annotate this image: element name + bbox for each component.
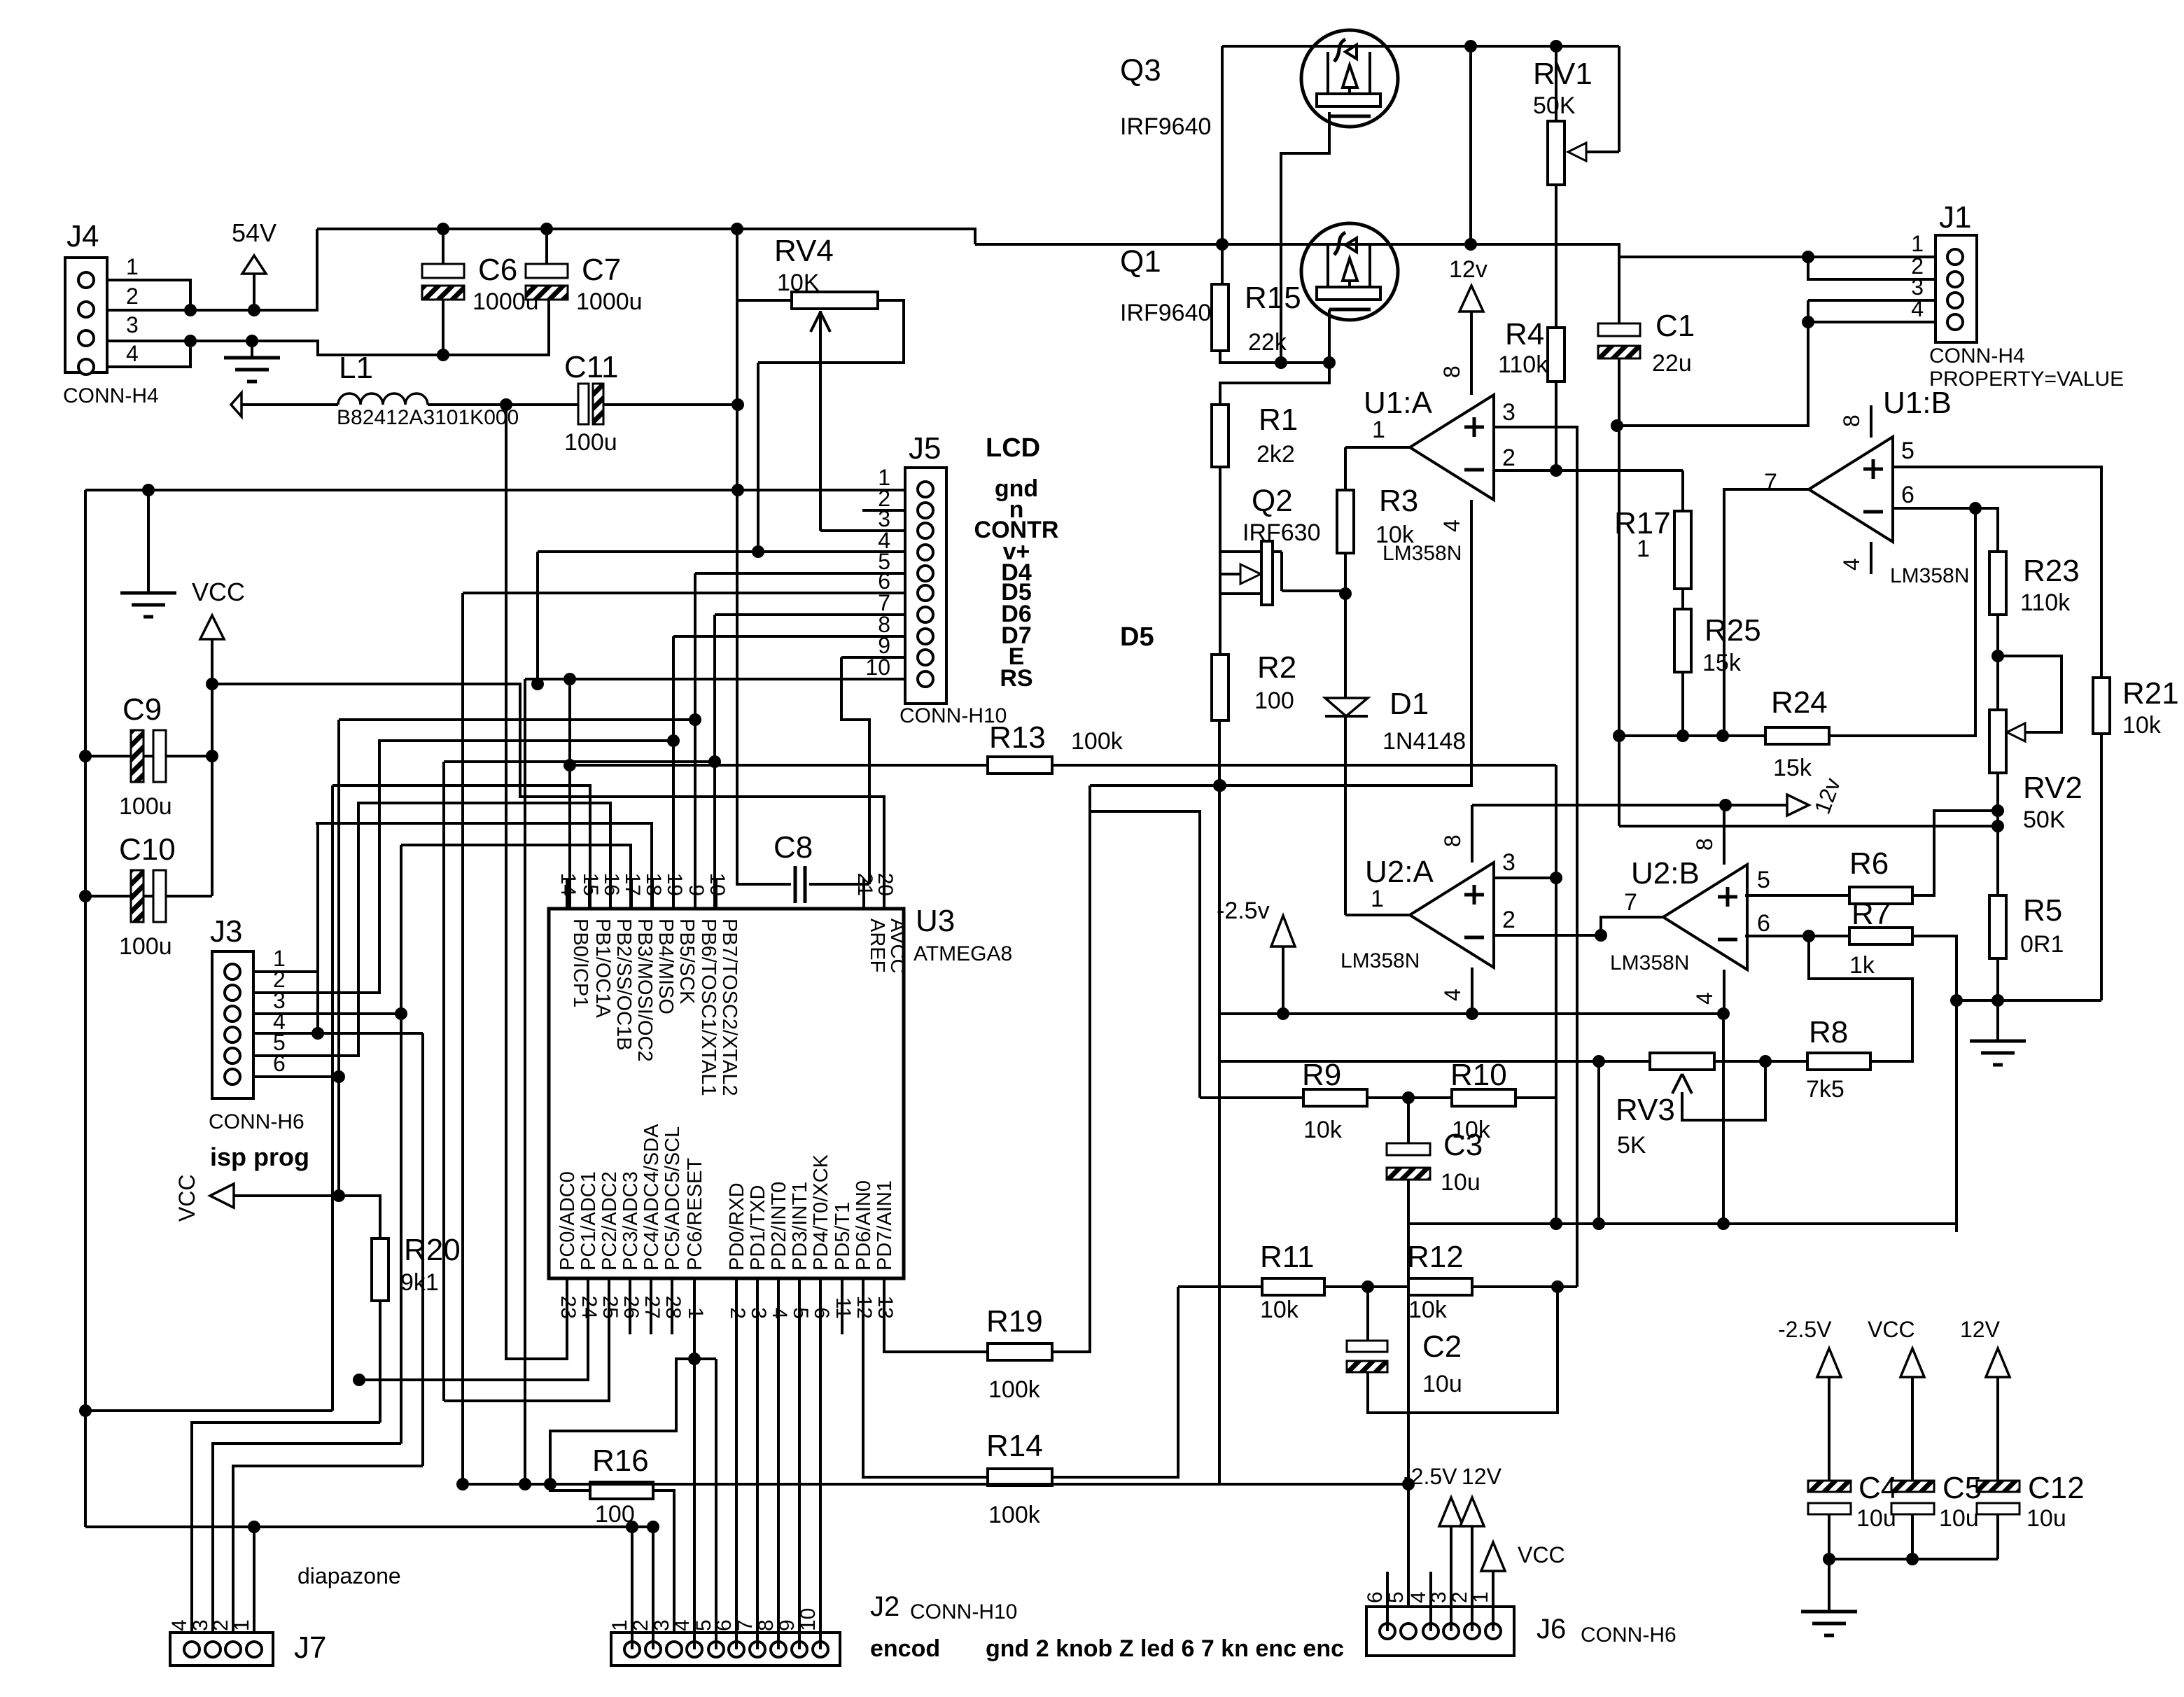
svg-text:3: 3 bbox=[1502, 849, 1515, 876]
resistor R9 10k bbox=[1090, 811, 1200, 1098]
wire 54V top rail bbox=[317, 229, 975, 244]
junction bbox=[1611, 419, 1623, 432]
svg-text:CONN-H6: CONN-H6 bbox=[1581, 1623, 1676, 1647]
svg-text:LCD: LCD bbox=[986, 433, 1040, 463]
svg-text:R14: R14 bbox=[986, 1429, 1043, 1463]
resistor R2 100 bbox=[1212, 655, 1228, 720]
svg-text:100u: 100u bbox=[119, 793, 172, 820]
svg-text:27: 27 bbox=[640, 1296, 664, 1319]
svg-text:PC4/ADC4/SDA: PC4/ADC4/SDA bbox=[640, 1124, 663, 1271]
svg-text:100k: 100k bbox=[1071, 728, 1123, 755]
RV1 wiper bbox=[1618, 46, 1620, 152]
wire PB7 row bbox=[444, 760, 715, 763]
svg-text:10K: 10K bbox=[777, 270, 820, 296]
junction bbox=[79, 1404, 92, 1417]
svg-text:0R1: 0R1 bbox=[2020, 931, 2064, 958]
resistor R21 10k bbox=[2093, 678, 2110, 734]
svg-text:J4: J4 bbox=[66, 219, 99, 253]
junction bbox=[437, 223, 449, 235]
svg-text:LM358N: LM358N bbox=[1382, 542, 1462, 565]
junction bbox=[500, 398, 512, 411]
svg-text:R6: R6 bbox=[1849, 846, 1889, 881]
svg-text:RV2: RV2 bbox=[2023, 771, 2082, 805]
ground bbox=[1828, 1559, 1830, 1612]
svg-text:22k: 22k bbox=[1248, 329, 1287, 356]
svg-text:R20: R20 bbox=[404, 1233, 461, 1267]
svg-text:4: 4 bbox=[1692, 992, 1717, 1005]
svg-text:1: 1 bbox=[1911, 231, 1924, 256]
svg-text:R5: R5 bbox=[2023, 893, 2062, 928]
svg-text:PB3/MOSI/OC2: PB3/MOSI/OC2 bbox=[633, 919, 656, 1062]
pot RV4 10K bbox=[792, 292, 878, 309]
svg-text:C11: C11 bbox=[564, 350, 618, 384]
capacitor C10 bbox=[85, 895, 212, 898]
wire bottom gnd row bbox=[85, 1525, 653, 1528]
resistor R4 110k bbox=[1548, 328, 1564, 382]
svg-text:-2.5v: -2.5v bbox=[1217, 898, 1270, 924]
svg-text:D1: D1 bbox=[1389, 687, 1429, 721]
wire J5 D4 bbox=[695, 572, 905, 575]
junction bbox=[79, 750, 92, 762]
svg-text:20: 20 bbox=[874, 873, 897, 896]
svg-text:54V: 54V bbox=[232, 218, 276, 247]
svg-text:7: 7 bbox=[1764, 469, 1777, 496]
svg-text:PROPERTY=VALUE: PROPERTY=VALUE bbox=[1929, 368, 2124, 391]
svg-text:CONN-H6: CONN-H6 bbox=[209, 1110, 304, 1133]
svg-text:7: 7 bbox=[1624, 889, 1637, 916]
wire gnd bus Wb bbox=[1090, 500, 1471, 785]
resistor R3 10k bbox=[1337, 490, 1354, 553]
svg-text:U1:A: U1:A bbox=[1364, 386, 1432, 420]
svg-text:CONN-H4: CONN-H4 bbox=[1929, 344, 2025, 368]
svg-text:1: 1 bbox=[1637, 536, 1650, 562]
wire J7 pin2 row bbox=[233, 1466, 423, 1642]
svg-text:R11: R11 bbox=[1260, 1240, 1314, 1274]
wire J5 D7 bbox=[673, 635, 905, 638]
svg-text:4: 4 bbox=[126, 341, 139, 366]
svg-text:10u: 10u bbox=[1939, 1505, 1979, 1532]
U3 bottom pins bbox=[566, 1278, 568, 1334]
svg-text:R2: R2 bbox=[1257, 650, 1296, 685]
svg-text:U1:B: U1:B bbox=[1883, 386, 1952, 420]
wire C3 bottom row bbox=[1408, 1222, 1956, 1225]
wire PC1 row bbox=[359, 1334, 588, 1380]
svg-text:100k: 100k bbox=[988, 1502, 1041, 1528]
svg-text:PC0/ADC0: PC0/ADC0 bbox=[556, 1171, 579, 1271]
svg-text:gnd 2 knob Z led 6 7 kn enc en: gnd 2 knob Z led 6 7 kn enc enc bbox=[986, 1635, 1344, 1662]
junction bbox=[731, 398, 744, 411]
svg-text:1: 1 bbox=[1372, 417, 1385, 443]
junction bbox=[1277, 1007, 1289, 1020]
wire J2 pin6-10 bbox=[735, 1334, 738, 1649]
wire U2A3 R10 bus bbox=[1555, 765, 1557, 1224]
svg-text:19: 19 bbox=[663, 873, 686, 896]
svg-text:Q3: Q3 bbox=[1120, 53, 1161, 88]
svg-text:28: 28 bbox=[661, 1296, 685, 1319]
svg-text:R24: R24 bbox=[1771, 685, 1828, 720]
svg-text:PD7/AIN1: PD7/AIN1 bbox=[874, 1180, 896, 1271]
svg-text:CONN-H4: CONN-H4 bbox=[63, 384, 159, 407]
connector J6 bbox=[1366, 1607, 1514, 1656]
svg-text:10k: 10k bbox=[1303, 1117, 1343, 1143]
svg-text:11: 11 bbox=[832, 1297, 855, 1319]
wire knob row bbox=[463, 1483, 1408, 1486]
inductor L1 bbox=[231, 393, 241, 417]
svg-text:PD5/T1: PD5/T1 bbox=[832, 1202, 854, 1271]
resistor R11 10k bbox=[1178, 1285, 1262, 1288]
junction bbox=[353, 1374, 365, 1386]
capacitor C5 10u bbox=[1891, 1481, 1934, 1492]
svg-text:1k: 1k bbox=[1849, 952, 1875, 979]
wire J4 pin2 rail bbox=[107, 229, 317, 310]
svg-text:2: 2 bbox=[126, 284, 139, 309]
svg-text:12: 12 bbox=[853, 1296, 876, 1319]
junction bbox=[1402, 1091, 1415, 1104]
svg-text:1: 1 bbox=[1371, 886, 1384, 912]
wire PB2 row bbox=[358, 802, 610, 804]
svg-text:12v: 12v bbox=[1449, 256, 1487, 283]
pot RV3 5K bbox=[1219, 1060, 1650, 1063]
junction bbox=[1802, 251, 1814, 263]
svg-text:C12: C12 bbox=[2028, 1471, 2085, 1505]
svg-text:isp prog: isp prog bbox=[210, 1143, 309, 1171]
diode D1 1N4148 bbox=[1325, 698, 1368, 716]
junction bbox=[184, 304, 197, 316]
wire output rail bbox=[975, 244, 1619, 258]
op-amp U2:B bbox=[1663, 865, 1747, 970]
svg-text:C7: C7 bbox=[582, 253, 621, 287]
wire J1 34 to C1 bbox=[1617, 300, 1808, 426]
svg-text:PB2/SS/OC1B: PB2/SS/OC1B bbox=[612, 919, 635, 1051]
svg-text:Q1: Q1 bbox=[1120, 244, 1161, 279]
wire RV4 right bbox=[758, 300, 904, 363]
svg-text:-2.5V: -2.5V bbox=[1403, 1464, 1457, 1489]
resistor R25 15k bbox=[1681, 589, 1684, 609]
svg-text:6: 6 bbox=[1901, 482, 1914, 508]
svg-text:1: 1 bbox=[608, 1619, 631, 1631]
resistor R5 0R1 bbox=[1989, 895, 2006, 958]
wire J3 pin1 bbox=[253, 970, 318, 973]
junction bbox=[563, 759, 576, 771]
junction bbox=[689, 713, 701, 726]
junction bbox=[1802, 930, 1815, 942]
svg-text:-2.5V: -2.5V bbox=[1778, 1317, 1832, 1342]
svg-text:R23: R23 bbox=[2023, 554, 2080, 588]
svg-text:PD2/INT0: PD2/INT0 bbox=[768, 1182, 790, 1271]
svg-text:C6: C6 bbox=[478, 253, 517, 287]
junction bbox=[332, 1189, 345, 1202]
junction bbox=[1823, 1553, 1835, 1565]
wire J5 n stub bbox=[862, 509, 905, 512]
resistor R24 15k bbox=[1619, 734, 1765, 737]
svg-text:4: 4 bbox=[768, 1307, 791, 1319]
svg-text:C10: C10 bbox=[119, 832, 176, 867]
svg-text:PC6/RESET: PC6/RESET bbox=[684, 1158, 706, 1271]
svg-text:J2: J2 bbox=[870, 1591, 899, 1622]
transistor Q1 IRF9640 bbox=[1301, 223, 1398, 320]
wire PB6 row bbox=[339, 718, 695, 721]
wire U1B7 branch bbox=[1723, 734, 1725, 737]
wire J1 pin4 bbox=[1808, 321, 1935, 323]
junction bbox=[206, 678, 218, 690]
wire J5 E bbox=[841, 656, 905, 659]
capacitor C6 bbox=[442, 229, 444, 264]
resistor R10 10k bbox=[1367, 1096, 1452, 1099]
U1A pin8 bbox=[1470, 312, 1473, 395]
wire J1 pin3 bbox=[1808, 299, 1935, 302]
svg-text:10k: 10k bbox=[1260, 1297, 1299, 1323]
svg-text:C3: C3 bbox=[1443, 1128, 1483, 1162]
svg-text:RV1: RV1 bbox=[1533, 57, 1592, 91]
wire Q3 source bbox=[1221, 46, 1224, 284]
svg-text:7k5: 7k5 bbox=[1806, 1076, 1844, 1103]
ground bbox=[251, 341, 253, 358]
svg-text:5K: 5K bbox=[1617, 1132, 1646, 1159]
svg-text:1: 1 bbox=[126, 254, 139, 279]
junction bbox=[1719, 799, 1732, 811]
wire J3 pin5 bbox=[253, 803, 610, 1056]
svg-text:10k: 10k bbox=[1408, 1297, 1448, 1323]
junction bbox=[544, 1478, 556, 1490]
svg-text:C2: C2 bbox=[1422, 1329, 1462, 1364]
svg-text:R21: R21 bbox=[2122, 676, 2179, 711]
svg-text:10u: 10u bbox=[2026, 1505, 2066, 1532]
svg-text:J5: J5 bbox=[909, 431, 941, 466]
wire PC2 row bbox=[444, 1334, 609, 1401]
resistor R19 100k bbox=[884, 1334, 988, 1352]
wire R23 RV2 bbox=[1996, 615, 1999, 710]
junction bbox=[248, 1521, 260, 1533]
wire PB7 vert bbox=[442, 762, 445, 1401]
svg-text:L1: L1 bbox=[339, 351, 373, 385]
svg-text:10: 10 bbox=[706, 873, 729, 896]
svg-text:22u: 22u bbox=[1652, 350, 1692, 377]
wire minus to J6row bbox=[1722, 1014, 1725, 1224]
capacitor C4 10u bbox=[1808, 1481, 1851, 1492]
svg-text:IRF9640: IRF9640 bbox=[1120, 113, 1211, 140]
junction bbox=[1969, 502, 1982, 515]
svg-text:PD4/T0/XCK: PD4/T0/XCK bbox=[810, 1154, 832, 1271]
svg-text:1: 1 bbox=[230, 1619, 253, 1631]
svg-text:6: 6 bbox=[1757, 910, 1770, 937]
junction bbox=[1550, 464, 1562, 477]
junction bbox=[311, 1027, 324, 1040]
svg-text:R7: R7 bbox=[1851, 897, 1891, 931]
wire VCC rail bbox=[212, 684, 884, 909]
capacitor C9 bbox=[85, 755, 212, 757]
svg-text:15k: 15k bbox=[1773, 755, 1812, 781]
wire R15 zigzag bbox=[1220, 351, 1329, 405]
power 54V bbox=[242, 256, 266, 274]
svg-text:14: 14 bbox=[556, 873, 580, 896]
ground bbox=[147, 490, 150, 593]
wire R5 gnd row bbox=[1956, 999, 2101, 1002]
svg-text:4: 4 bbox=[1839, 558, 1864, 571]
wire minus rail bbox=[1219, 1012, 1723, 1015]
svg-text:2: 2 bbox=[1502, 907, 1515, 933]
svg-text:13: 13 bbox=[874, 1296, 897, 1319]
svg-text:R1: R1 bbox=[1259, 403, 1298, 437]
svg-text:diapazone: diapazone bbox=[297, 1563, 401, 1588]
wire cap gnd bbox=[1829, 1558, 1998, 1560]
svg-text:2k2: 2k2 bbox=[1256, 441, 1295, 468]
resistor R13 100k bbox=[570, 764, 988, 767]
svg-text:J3: J3 bbox=[210, 914, 242, 949]
wire J2 pin1 bbox=[631, 1527, 633, 1649]
U1A pin1 wire bbox=[1345, 446, 1410, 449]
junction bbox=[1275, 356, 1287, 369]
junction bbox=[1991, 650, 2004, 662]
svg-text:R8: R8 bbox=[1809, 1015, 1848, 1049]
wire PC0 row bbox=[506, 405, 567, 1359]
svg-text:RV3: RV3 bbox=[1616, 1093, 1675, 1127]
wire PB3 vert bbox=[400, 845, 402, 1014]
svg-text:VCC: VCC bbox=[192, 578, 245, 606]
junction bbox=[1991, 994, 2004, 1007]
pot RV4 wiper bbox=[811, 312, 830, 332]
svg-text:9: 9 bbox=[685, 884, 708, 896]
svg-text:ATMEGA8: ATMEGA8 bbox=[913, 942, 1012, 965]
wire Q3 gate bbox=[1281, 112, 1329, 363]
capacitor C7 bbox=[545, 229, 548, 264]
U1B pin4 bbox=[1870, 542, 1872, 574]
transistor Q3 IRF9640 bbox=[1301, 30, 1398, 127]
resistor R14 100k bbox=[863, 1334, 988, 1477]
wire top rail bbox=[1222, 45, 1619, 48]
op-amp U1:B bbox=[1809, 437, 1893, 542]
transistor Q2 IRF630 bbox=[1219, 467, 1221, 594]
svg-text:C9: C9 bbox=[122, 692, 162, 727]
svg-text:10u: 10u bbox=[1441, 1169, 1480, 1196]
connector J3 bbox=[212, 951, 253, 1098]
svg-text:50K: 50K bbox=[1533, 92, 1576, 119]
svg-text:8: 8 bbox=[1439, 365, 1464, 378]
wire PB1 row bbox=[332, 785, 590, 909]
svg-text:R15: R15 bbox=[1245, 281, 1301, 315]
junction bbox=[1339, 587, 1352, 600]
U2B pin4 wire bbox=[1723, 970, 1725, 1014]
svg-text:8: 8 bbox=[1440, 834, 1465, 847]
junction bbox=[1759, 1055, 1772, 1068]
svg-text:10u: 10u bbox=[1856, 1505, 1896, 1532]
svg-text:8: 8 bbox=[1839, 414, 1864, 427]
svg-text:R13: R13 bbox=[989, 720, 1046, 755]
connector J7 bbox=[170, 1633, 273, 1665]
U1A pin4 bbox=[1470, 500, 1473, 785]
resistor R23 110k bbox=[1989, 552, 2006, 615]
svg-text:PB7/TOSC2/XTAL2: PB7/TOSC2/XTAL2 bbox=[718, 919, 741, 1096]
svg-text:25: 25 bbox=[598, 1296, 622, 1319]
wire R4 bottom bbox=[1555, 382, 1557, 470]
svg-text:R16: R16 bbox=[592, 1444, 649, 1478]
junction bbox=[1213, 779, 1226, 792]
svg-text:2: 2 bbox=[1502, 445, 1515, 471]
junction bbox=[184, 335, 197, 347]
svg-text:12V: 12V bbox=[1960, 1317, 2001, 1342]
wire J5 CONTR bbox=[820, 529, 905, 532]
svg-text:PB4/MISO: PB4/MISO bbox=[654, 919, 677, 1014]
svg-text:4: 4 bbox=[168, 1619, 191, 1631]
wire R2 bottom bbox=[1218, 720, 1221, 1484]
junction bbox=[1717, 1217, 1730, 1230]
svg-text:PB0/ICP1: PB0/ICP1 bbox=[569, 919, 591, 1007]
resistor R15 22k bbox=[1212, 284, 1228, 351]
svg-text:3: 3 bbox=[1502, 399, 1515, 426]
resistor R1 2k2 bbox=[1212, 405, 1228, 467]
svg-text:PC2/ADC2: PC2/ADC2 bbox=[598, 1171, 621, 1271]
svg-text:PD3/INT1: PD3/INT1 bbox=[789, 1182, 811, 1271]
svg-text:24: 24 bbox=[577, 1296, 601, 1319]
capacitor C3 10u bbox=[1407, 1098, 1410, 1143]
junction bbox=[332, 1070, 345, 1083]
ground bbox=[1996, 1000, 1999, 1041]
op-amp U1:A bbox=[1410, 395, 1494, 500]
wire PB4 row bbox=[316, 822, 652, 825]
junction bbox=[1216, 238, 1228, 251]
wire J7 pin4 row bbox=[192, 1423, 380, 1642]
svg-text:100: 100 bbox=[595, 1501, 635, 1528]
junction bbox=[1595, 929, 1607, 942]
capacitor C12 10u bbox=[1977, 1481, 2019, 1492]
svg-text:100k: 100k bbox=[988, 1376, 1041, 1403]
svg-text:R10: R10 bbox=[1450, 1058, 1507, 1092]
RV2 wiper loop bbox=[1998, 656, 2061, 732]
svg-text:J6: J6 bbox=[1536, 1614, 1566, 1644]
svg-text:1000u: 1000u bbox=[576, 288, 643, 315]
wire J3 pin4 bbox=[253, 1032, 423, 1035]
wire PB0 stub bbox=[568, 679, 571, 909]
svg-text:R3: R3 bbox=[1379, 484, 1418, 518]
wire J1 pin1 bbox=[1619, 256, 1935, 258]
wire J1 net down bbox=[1619, 825, 1998, 827]
svg-text:26: 26 bbox=[619, 1296, 643, 1319]
svg-text:9k1: 9k1 bbox=[400, 1269, 439, 1296]
svg-text:23: 23 bbox=[556, 1296, 580, 1319]
junction bbox=[142, 484, 155, 496]
svg-text:LM358N: LM358N bbox=[1890, 564, 1969, 587]
wire J5 D6 bbox=[715, 613, 905, 616]
svg-text:100: 100 bbox=[1254, 687, 1294, 714]
svg-text:4: 4 bbox=[1440, 989, 1465, 1001]
wire RV2 bottom bbox=[1996, 773, 1999, 895]
svg-text:4: 4 bbox=[1439, 519, 1464, 532]
wire J2 pin5 bbox=[715, 1359, 717, 1649]
svg-text:15k: 15k bbox=[1702, 650, 1742, 676]
svg-text:PC1/ADC1: PC1/ADC1 bbox=[577, 1171, 600, 1271]
svg-text:R19: R19 bbox=[986, 1304, 1043, 1339]
junction bbox=[1991, 804, 2004, 817]
wire R13 to U2A bbox=[1052, 764, 1556, 767]
resistor R8 7k5 bbox=[1807, 1053, 1870, 1070]
svg-text:C1: C1 bbox=[1655, 309, 1695, 343]
wire R3 to D1 bbox=[1344, 594, 1347, 698]
svg-text:21: 21 bbox=[853, 873, 876, 896]
junction bbox=[1950, 994, 1963, 1007]
junction bbox=[519, 1478, 531, 1490]
svg-text:16: 16 bbox=[600, 873, 623, 896]
svg-text:100u: 100u bbox=[119, 933, 172, 960]
wire J4 pin4 bbox=[107, 338, 190, 367]
junction bbox=[1361, 1280, 1374, 1293]
svg-text:PB6/TOSC1/XTAL1: PB6/TOSC1/XTAL1 bbox=[697, 919, 720, 1096]
svg-text:1: 1 bbox=[684, 1307, 707, 1319]
svg-text:U2:B: U2:B bbox=[1631, 856, 1700, 891]
wire J4 pin1 bbox=[107, 280, 190, 310]
svg-text:50K: 50K bbox=[2023, 806, 2066, 833]
svg-text:18: 18 bbox=[642, 873, 665, 896]
power 12v bbox=[1459, 286, 1483, 312]
svg-text:RS: RS bbox=[1000, 665, 1032, 692]
